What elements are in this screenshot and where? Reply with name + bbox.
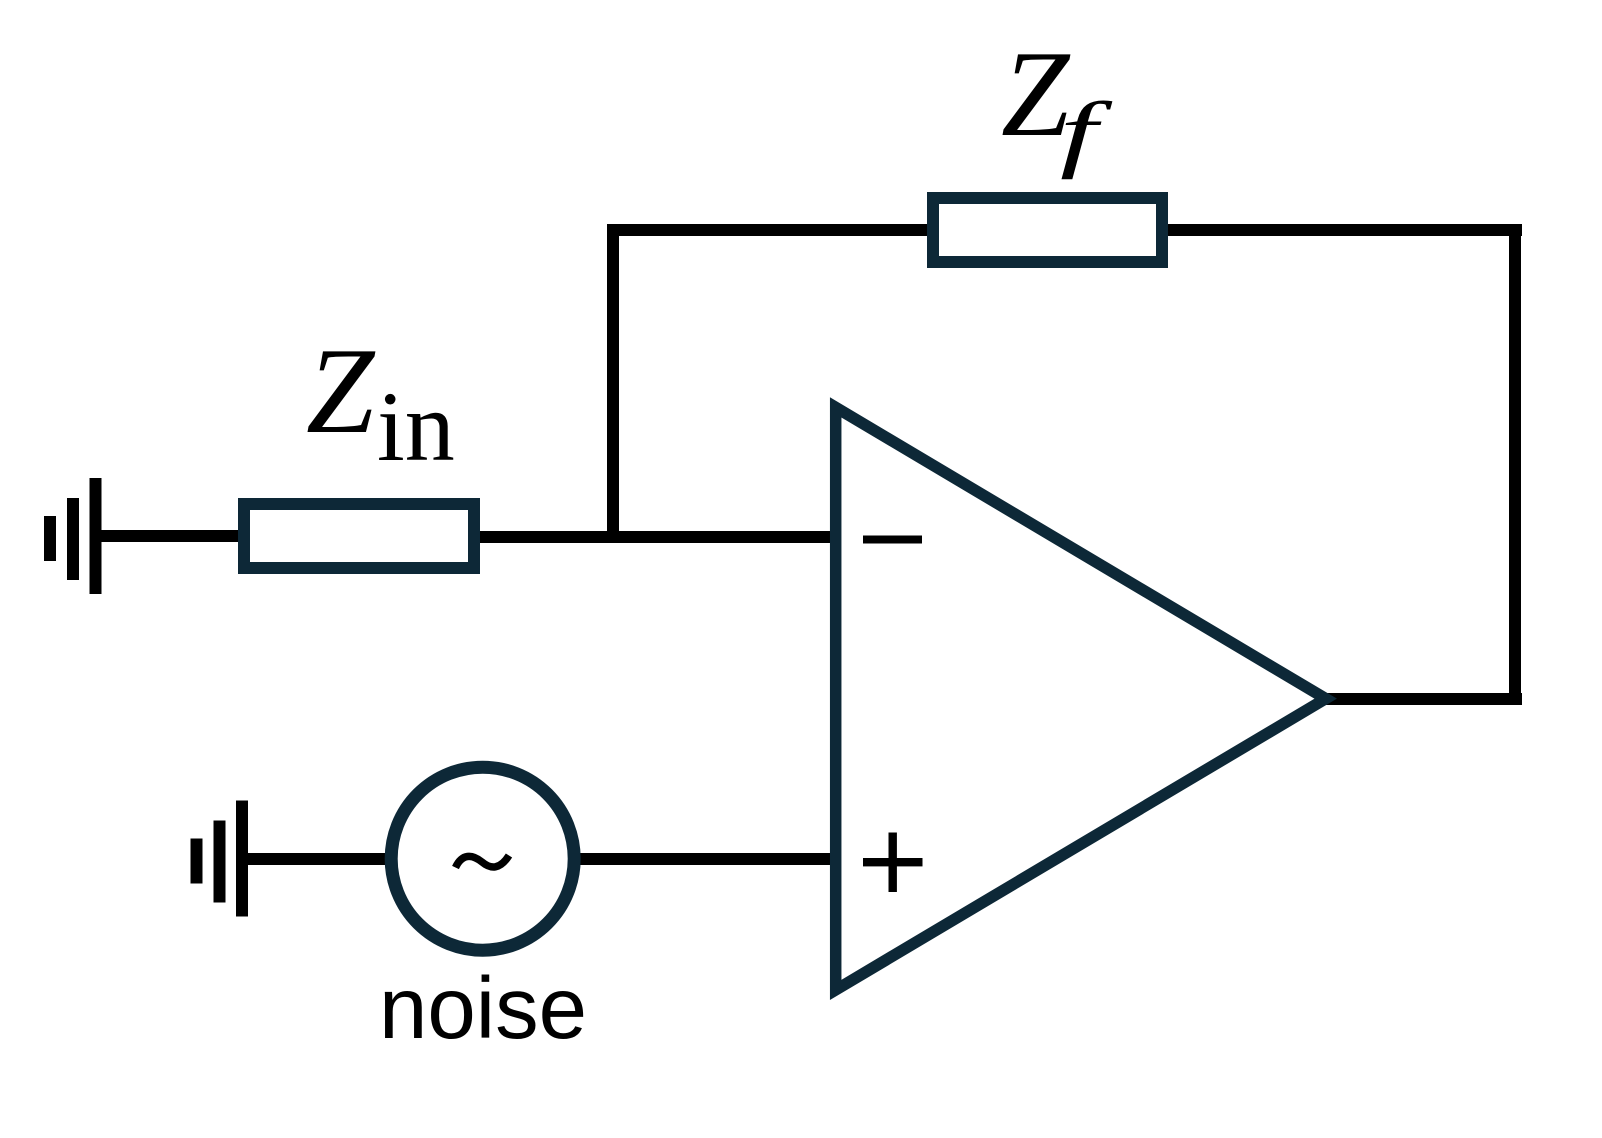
wire feedback top horizontal xyxy=(607,224,1522,236)
op-amp U1 xyxy=(836,407,1326,990)
svg-text:noise: noise xyxy=(379,960,587,1057)
wire Zin to op-amp inverting input xyxy=(476,531,841,543)
wire op-amp output xyxy=(1326,693,1522,705)
op-amp plus sign xyxy=(863,833,923,893)
resistor Zin xyxy=(244,504,474,568)
ground G1 xyxy=(44,478,102,594)
wire feedback right vertical xyxy=(1509,224,1521,705)
wire feedback left vertical xyxy=(607,224,619,543)
svg-text:in: in xyxy=(377,371,455,482)
resistor Zf xyxy=(933,198,1162,262)
wire ground2 to noise source to op-amp non-inverting input xyxy=(242,853,842,865)
label Zin xyxy=(306,322,455,482)
op-amp minus sign xyxy=(863,536,922,544)
wire ground1 to Zin xyxy=(95,530,243,542)
svg-text:Z: Z xyxy=(306,322,376,459)
noise source tilde xyxy=(456,856,510,868)
noise source V1 circle xyxy=(391,767,574,950)
label Zf xyxy=(1001,25,1113,180)
ground G2 xyxy=(191,801,249,917)
